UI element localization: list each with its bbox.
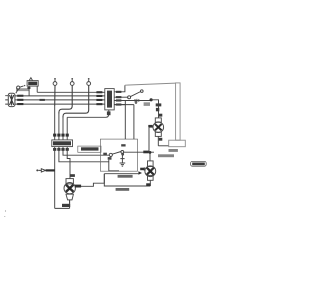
wire from switch to lamp junction (y=151.2) (124, 151, 154, 153)
coil L1 left label (148, 125, 152, 127)
coil L1 bottom wire to resistor box (158, 145, 168, 147)
text label below junction (144, 102, 150, 106)
long vertical wire left (x=56.6) (54, 147, 56, 209)
wire box C to junction (y=100.5) (114, 100, 150, 102)
motor M1 output wire staircase (76, 174, 105, 187)
internal drop wire to ground bus (109, 160, 119, 171)
switch S2 label (121, 144, 125, 146)
wire from distributor to ground line (y=161.8) (59, 147, 109, 162)
wire W4 from unit B1 (y=92.3) (37, 91, 105, 93)
motor M1 top label (70, 174, 75, 177)
switch S2 (109, 151, 124, 157)
wire label V4 (66, 134, 69, 137)
unit B1 stub left (28, 86, 30, 96)
vertical wire V1 to distributor (54, 106, 56, 140)
capacitor ticks on wire (135, 99, 139, 102)
internal wire label (108, 157, 112, 160)
label on M1 output wire (75, 185, 81, 188)
bottom return wire (55, 200, 70, 209)
wire to lamp M2 upper (y=173.6) (104, 173, 138, 175)
ground symbol below box (120, 153, 126, 166)
wire box C to control box riser (y=104.6) (114, 101, 125, 140)
label on coil feed wire (156, 103, 162, 106)
wire junction to coil (elbow) (151, 100, 158, 118)
junction dot (150, 98, 153, 101)
wire W1 top (y=95.9) (15, 95, 105, 97)
motor M1 bottom label (62, 204, 70, 207)
inline connector bowtie symbol (138, 167, 144, 175)
wire label V3 (61, 134, 64, 137)
wire to lamp M2 lower (y=185.9) (104, 174, 150, 186)
coil L1 (153, 118, 164, 146)
connector J1 body (8, 93, 15, 106)
coil L1 bottom label (159, 138, 163, 141)
wire blob at box entry (103, 153, 107, 155)
wire W3 bot (y=104.1) (15, 103, 105, 105)
lamp M2 (145, 152, 156, 186)
wire label 1A-1RTT upper (118, 175, 133, 178)
spark plug P2 (59, 78, 74, 114)
box C bottom stub wire to V4 (67, 110, 109, 117)
wire label 1A-1RTT lower (116, 188, 130, 191)
resistor cable box right (169, 83, 186, 147)
vertical wire to motor M1 (x=68) (67, 147, 70, 179)
lamp M2 bottom label (146, 183, 150, 186)
text label right of wire end (158, 154, 174, 157)
distributor box B2 (52, 140, 73, 147)
long top feed wire (y=84) (125, 83, 176, 85)
connector J1 prongs (5, 96, 8, 104)
second riser to control box (114, 105, 134, 140)
coil L1 left wire (149, 127, 153, 152)
relay label box (78, 146, 101, 152)
paper specks (4, 210, 6, 217)
spark plug P3 (63, 78, 91, 118)
wire color label W3 left (17, 103, 23, 105)
wire W2 mid (y=99.9) (15, 99, 105, 101)
lamp M2 left label (140, 168, 144, 171)
distributor stub labels (53, 148, 69, 151)
wire label V2 (57, 134, 60, 137)
wire color label W2 mid (40, 99, 45, 101)
text under resistor box (169, 149, 178, 152)
coil L1 top label (159, 114, 162, 117)
unit B1 stub left label (27, 87, 30, 89)
wire color label W1 left (17, 95, 23, 97)
vertical wire V4 to distributor (66, 117, 68, 140)
ignition unit box C (105, 89, 114, 110)
inline connector arrow symbol (36, 169, 54, 172)
motor M1 (64, 179, 75, 204)
spark plug P1 (53, 78, 57, 106)
wire box C to riser (y=92.4) (114, 85, 125, 92)
box C output labels (116, 91, 122, 106)
wire color label W2 left (17, 99, 23, 101)
vertical wire V2 to distributor (58, 114, 60, 140)
page tag box (191, 161, 207, 166)
unit B1 stub right (36, 86, 38, 92)
junction dot at lamp feed (149, 151, 152, 154)
wire label V1 (53, 134, 56, 137)
box C input labels (96, 91, 102, 105)
wire box C to switch S1 (y=97.2) (114, 96, 128, 98)
vertical wire V3 to distributor (62, 118, 64, 140)
wire from distributor to switch (y=155.2) (63, 147, 110, 156)
unit B1 box (27, 78, 38, 86)
wire label before junction (143, 151, 149, 154)
label text above connector (16, 88, 30, 91)
switch S1 (128, 90, 144, 99)
small circle terminal near connector (16, 85, 25, 93)
control box outline (100, 139, 137, 171)
box C bottom stub label (107, 111, 111, 115)
